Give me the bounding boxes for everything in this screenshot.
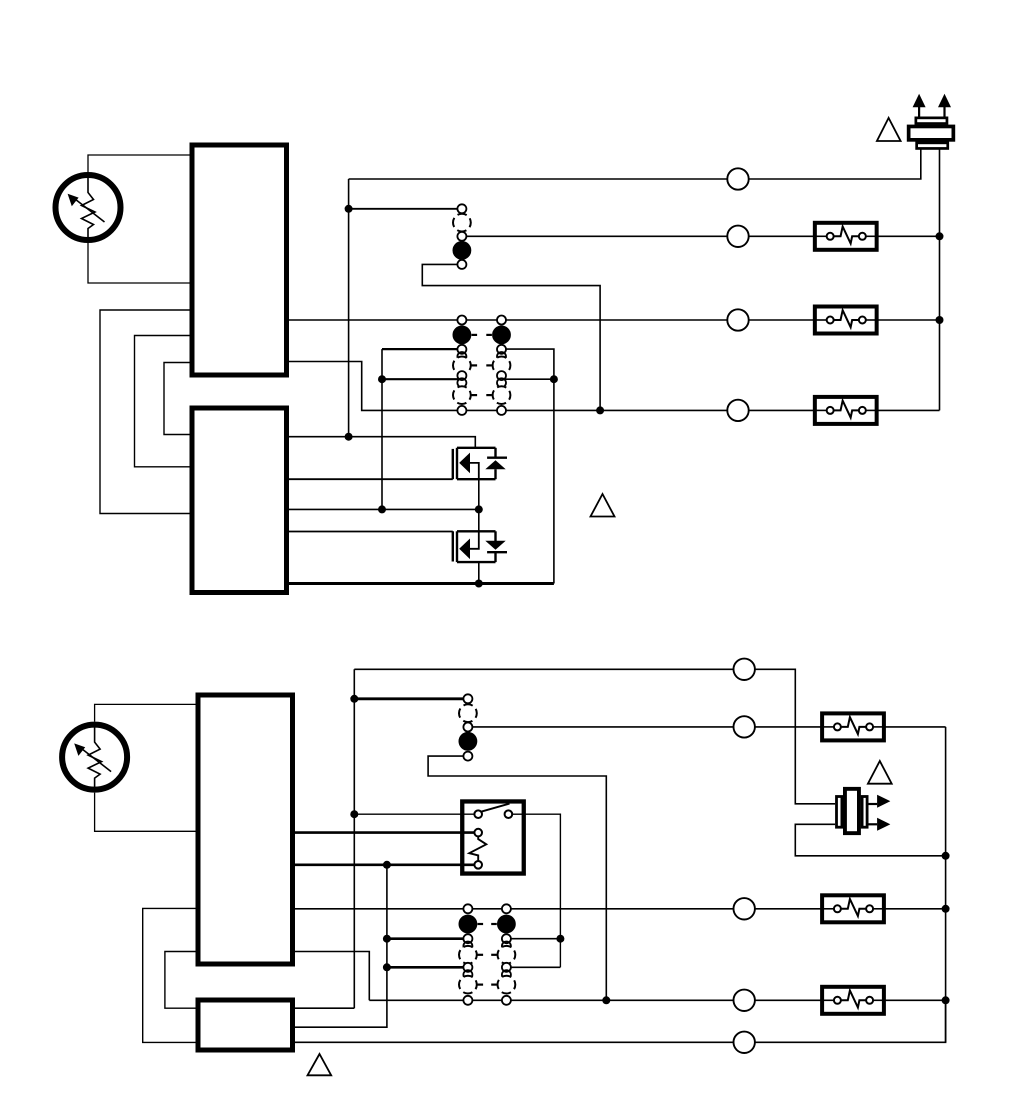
junction <box>345 205 353 213</box>
terminal R <box>727 168 748 189</box>
wire bus bottom <box>945 727 947 1042</box>
wire stack2 right 3 <box>506 966 560 968</box>
wire contact stack left vertical <box>381 349 383 509</box>
junction <box>942 852 950 860</box>
thermostat module A1 <box>192 145 287 375</box>
wire Q2 source row <box>289 582 554 585</box>
wire K1 NO to W terminal row <box>462 235 940 237</box>
equipment interface module A2 <box>192 408 287 593</box>
wire Rc power row <box>354 669 835 804</box>
wire relay coil top <box>295 831 478 834</box>
terminal W <box>727 226 748 247</box>
damper relay K5 <box>462 801 524 873</box>
wiring module A4 <box>198 1000 293 1050</box>
outdoor temperature sensor RC <box>56 173 121 243</box>
load fan relay 2 <box>822 895 884 922</box>
wire common row bottom <box>369 999 945 1001</box>
junction <box>475 505 483 513</box>
wire contact stack left 3 <box>382 378 462 380</box>
junction <box>936 316 944 324</box>
wire Q2 source pin <box>478 562 480 583</box>
junction <box>475 580 483 588</box>
wire contact stack left 2 <box>382 348 462 350</box>
load common 2 <box>822 987 884 1014</box>
junction <box>383 935 391 943</box>
load compressor relay <box>822 713 884 740</box>
junction <box>942 905 950 913</box>
wire stack2 left 3 <box>387 966 468 969</box>
load heat relay <box>815 223 877 250</box>
MOSFET Q1 <box>453 448 507 479</box>
junction <box>378 375 386 383</box>
wire sensor bottom <box>88 243 190 283</box>
wire transformer2 low <box>795 824 945 856</box>
junction <box>602 996 610 1004</box>
wire stack2 left 2 <box>387 937 468 940</box>
wire contact stack right 2 <box>502 349 554 583</box>
load fan relay <box>815 307 877 334</box>
terminal C2 <box>734 990 755 1011</box>
wire loop inner <box>164 363 190 435</box>
terminal X <box>734 1032 755 1053</box>
wire Q1 gate <box>289 478 453 480</box>
thermostat module A3 <box>198 695 293 964</box>
wire loop inner 2 <box>165 952 196 1009</box>
wire stack2 rect3 row <box>295 952 369 1001</box>
load common <box>815 397 877 424</box>
wire K1 common feed <box>349 208 462 210</box>
wire loop outer <box>100 310 190 514</box>
warning triangle 4 <box>308 1054 332 1075</box>
wire Q1 drain <box>289 437 475 448</box>
junction <box>350 810 358 818</box>
wire common bottom row <box>289 362 940 411</box>
relay contacts K2 (ganged pair) <box>453 316 510 415</box>
MOSFET Q2 <box>453 531 507 562</box>
wire R power row <box>349 150 921 180</box>
junction <box>383 861 391 869</box>
relay contacts K4 (ganged pair) <box>459 904 515 1005</box>
junction <box>556 935 564 943</box>
junction <box>942 996 950 1004</box>
wire Q2 gate <box>289 531 453 533</box>
wire fan contact row <box>289 319 940 321</box>
wire stack2 vertical <box>295 865 387 1027</box>
terminal C <box>727 400 748 421</box>
wire fan row bottom <box>295 908 946 910</box>
wire loop middle <box>135 336 190 467</box>
wire vertical Rc feed <box>353 669 355 1008</box>
junction <box>936 232 944 240</box>
junction <box>383 963 391 971</box>
warning triangle 1 <box>877 118 901 141</box>
wire relay switch out <box>508 814 560 967</box>
terminal G2 <box>734 898 755 919</box>
warning triangle 3 <box>868 761 892 784</box>
wire relay coil bottom <box>295 863 478 866</box>
wire right bus top <box>939 150 941 411</box>
wire K3 common feed <box>354 697 468 700</box>
junction <box>350 695 358 703</box>
transformer TR1 (system power) <box>909 94 954 149</box>
wire K3 NO to Y terminal row <box>468 726 946 728</box>
terminal Rc <box>734 659 755 680</box>
wire sensor top <box>88 155 190 172</box>
wire stack2 right 2 <box>506 938 560 940</box>
wire loop outer 2 <box>143 908 196 1042</box>
relay contacts K1 <box>453 204 471 269</box>
junction <box>345 433 353 441</box>
outdoor temperature sensor RC2 <box>62 722 127 792</box>
wire sensor2 bottom <box>95 793 196 832</box>
wire rect4 A row <box>295 1007 354 1009</box>
junction <box>596 406 604 414</box>
wire K3 NC branch <box>428 756 606 1000</box>
wire Q1 source mid <box>289 508 479 510</box>
warning triangle 2 <box>591 494 615 517</box>
wire K1 NC branch <box>422 264 600 410</box>
relay contacts K3 <box>459 694 477 760</box>
wire relay switch feed <box>354 813 478 815</box>
junction <box>550 375 558 383</box>
wire sensor2 top <box>95 704 196 721</box>
terminal Y <box>734 716 755 737</box>
terminal G <box>727 309 748 330</box>
wire contact stack right 3 <box>502 378 554 380</box>
junction <box>378 505 386 513</box>
transformer TR2 (cooling power) <box>837 789 891 833</box>
wire B5 row <box>295 1000 946 1042</box>
wire Q1-Q2 link <box>478 479 480 531</box>
wire vertical R feed <box>348 179 350 437</box>
